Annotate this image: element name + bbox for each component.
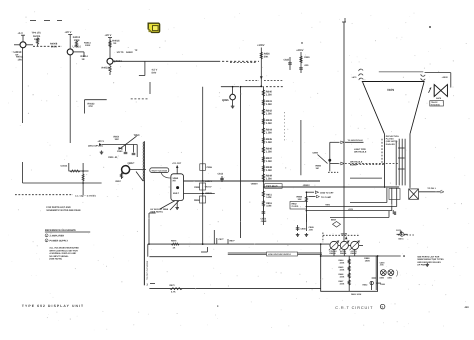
wire neck pin line y210.6 <box>306 210 308 212</box>
svg-text:(DECOUPLED): (DECOUPLED) <box>88 145 103 148</box>
CRT V879 envelope funnel <box>363 82 424 134</box>
svg-text:C806: C806 <box>207 166 213 169</box>
svg-text:-2850V: -2850V <box>205 180 213 183</box>
svg-text:+20 V: +20 V <box>65 31 72 34</box>
resistor R886 <box>348 273 350 278</box>
svg-text:+20 V: +20 V <box>98 140 105 143</box>
svg-text:MULT: MULT <box>173 192 180 195</box>
wire HV out lower <box>184 193 215 195</box>
circled sheet number <box>380 304 385 309</box>
svg-text:3.3M: 3.3M <box>266 204 271 207</box>
svg-text:C812: C812 <box>218 173 224 176</box>
box cluster R862 <box>290 202 306 210</box>
yellow note marker icon <box>148 23 159 32</box>
svg-text:1.5M: 1.5M <box>266 151 272 154</box>
wire y256 from left <box>149 256 212 258</box>
svg-text:R891 100K: R891 100K <box>351 293 362 296</box>
svg-text:.0068: .0068 <box>261 220 268 223</box>
wire x214 stub <box>213 230 215 244</box>
CRT base connector box with X <box>409 189 419 199</box>
label boxed on control line <box>267 252 298 256</box>
svg-text:R875: R875 <box>171 240 177 243</box>
svg-text:SCHEMATIC NOTES SEE PAGE: SCHEMATIC NOTES SEE PAGE <box>46 209 81 212</box>
svg-text:GEOM: GEOM <box>341 232 348 235</box>
wire horizontal y87 bus <box>221 86 263 88</box>
resistor R857 below Q857 <box>121 173 123 180</box>
svg-text:o.c. sag — 4 mV/div: o.c. sag — 4 mV/div <box>75 195 97 198</box>
svg-text:150K: 150K <box>340 268 345 271</box>
CRT inner screen dashed line <box>379 71 424 73</box>
wire anode out top arrow <box>176 166 178 174</box>
wire control bus y244 <box>148 243 330 245</box>
capacitor C852 <box>133 145 135 153</box>
wire ladder spine x263.5 <box>262 86 264 225</box>
transistor Q857 oscillator <box>122 166 130 174</box>
svg-text:2: 2 <box>46 239 47 242</box>
components cluster y225-238 <box>305 225 307 231</box>
wire cathode long line y187 <box>263 186 399 188</box>
tick marks top <box>30 20 36 22</box>
wire pot row to box stubs <box>333 250 335 257</box>
junction box top corners <box>320 255 322 257</box>
wire U4016 collector stub <box>73 51 84 53</box>
svg-text:1.5M: 1.5M <box>266 103 272 106</box>
resistor R849 <box>262 174 264 180</box>
svg-text:C825: C825 <box>284 59 290 62</box>
wire neck pin line y217.4 <box>330 216 389 218</box>
svg-text:1.5M: 1.5M <box>266 132 272 135</box>
wire inner vertical x376 <box>375 256 377 290</box>
svg-text:HIGH VOLTAGE: HIGH VOLTAGE <box>152 169 168 172</box>
svg-text:R877: R877 <box>230 240 236 243</box>
svg-text:Z AMPLIFIER: Z AMPLIFIER <box>50 234 65 237</box>
svg-text:1.5M: 1.5M <box>266 178 272 181</box>
wire stub x150 <box>149 82 151 94</box>
svg-text:Z AXIS: Z AXIS <box>292 205 299 208</box>
svg-text:1/2 TD: 1/2 TD <box>117 51 124 54</box>
svg-text:C868: C868 <box>301 228 307 231</box>
dashed line to light pipe <box>350 163 384 165</box>
svg-text:SEE PARTS LIST FOR: SEE PARTS LIST FOR <box>417 255 440 258</box>
svg-text:150K: 150K <box>340 282 345 285</box>
svg-text:+20 V: +20 V <box>105 34 112 37</box>
box geometry network outline <box>321 256 378 291</box>
svg-text:DEFLECTION: DEFLECTION <box>386 135 399 138</box>
svg-text:.001: .001 <box>304 64 309 67</box>
svg-text:1K: 1K <box>113 42 116 45</box>
svg-text:C4044: C4044 <box>61 165 68 168</box>
resistor R4044 <box>70 170 80 172</box>
node +20V at U4016 <box>69 35 71 49</box>
resistor R843 <box>262 118 264 124</box>
dashed graticule boundary vertical <box>381 139 383 165</box>
dashed stub under neck <box>398 234 414 236</box>
resistor R848 <box>262 165 264 171</box>
wire U4016 emitter down <box>69 55 71 143</box>
svg-text:1.5M: 1.5M <box>266 94 272 97</box>
svg-text:R864A: R864A <box>330 252 337 255</box>
wire grid vertical <box>329 142 331 171</box>
wire arrow C842 y192 <box>306 191 314 193</box>
capacitor C879 <box>399 231 401 235</box>
resistor R845 <box>262 137 264 143</box>
svg-text:TO GRATICULE: TO GRATICULE <box>348 139 364 142</box>
resistor R887 <box>348 280 350 285</box>
svg-text:1M: 1M <box>316 167 319 170</box>
wire dashed into divider <box>230 61 257 63</box>
wires fan below U860 <box>176 201 178 206</box>
svg-text:B867: B867 <box>331 218 337 221</box>
transistor U4016 <box>67 49 73 55</box>
svg-text:(SEE NOTE): (SEE NOTE) <box>49 258 62 261</box>
graticule lamp B890 <box>380 270 386 276</box>
svg-text:1: 1 <box>46 234 47 237</box>
svg-text:1K: 1K <box>82 58 85 61</box>
dashed DC BAL line <box>323 234 359 236</box>
wire x306 vertical <box>305 193 307 226</box>
svg-text:TO Z AMP: TO Z AMP <box>321 196 332 199</box>
wire U4010 base dashed <box>26 44 33 46</box>
svg-text:Q855: Q855 <box>222 99 229 102</box>
svg-text:R853: R853 <box>266 202 272 205</box>
wire Q855 collector <box>232 87 234 95</box>
svg-text:SEMICONDUCTOR TYPES: SEMICONDUCTOR TYPES <box>417 258 444 261</box>
svg-text:150K: 150K <box>340 261 345 264</box>
svg-text:C859: C859 <box>313 152 319 155</box>
wire double line to controls <box>228 252 322 254</box>
svg-text:150K: 150K <box>365 259 371 262</box>
wire corner to bottom bus <box>149 212 156 214</box>
potentiometer R864B INTENSITY <box>340 241 348 249</box>
svg-text:R4014: R4014 <box>84 42 91 45</box>
resistor R826 <box>260 52 262 59</box>
svg-text:+300V: +300V <box>257 44 265 47</box>
graticule lamp B891 <box>388 270 394 276</box>
svg-text:C850: C850 <box>117 150 123 153</box>
reference item 2 <box>45 239 48 242</box>
svg-text:300K: 300K <box>51 45 57 48</box>
capacitor C851 <box>125 145 127 152</box>
junction big dot grid node <box>328 159 331 162</box>
svg-text:-2850V: -2850V <box>303 184 311 187</box>
node +300V feed <box>260 48 262 87</box>
svg-text:+5 V: +5 V <box>18 32 24 35</box>
svg-text:C877: C877 <box>219 238 225 241</box>
diode CR851 <box>119 147 122 150</box>
wire funnel to trace rotation <box>425 72 451 74</box>
winding diagonal <box>120 136 136 149</box>
capacitor C812 stub x222 <box>221 176 223 182</box>
svg-text:(SEE NOTE): (SEE NOTE) <box>386 140 398 143</box>
arrow into trace rotation coil <box>429 88 432 93</box>
svg-text:449: 449 <box>465 306 470 309</box>
trace rotation coil B876 bowtie <box>434 85 447 97</box>
wire y288 long from bus <box>149 288 320 290</box>
label CRT BIAS boxed <box>265 184 283 189</box>
resistor chain R884-R887 inside box <box>348 256 350 291</box>
svg-text:A NORMAL DISPLAY AND: A NORMAL DISPLAY AND <box>49 252 76 255</box>
wire left bus bottom <box>69 170 89 172</box>
capacitor C806 box on x202 <box>200 164 206 171</box>
resistor R4046 <box>82 174 84 181</box>
transistor Q855 <box>230 94 236 100</box>
wire grid diagonal <box>318 155 328 164</box>
svg-text:Q857: Q857 <box>128 162 135 165</box>
svg-text:R4022: R4022 <box>126 51 133 54</box>
svg-text:ROTATION: ROTATION <box>431 103 441 106</box>
leader curve to U860 <box>161 173 171 179</box>
wire box top extension right <box>378 255 401 257</box>
wire U4010 emitter down <box>22 48 24 123</box>
resistor R882 inner <box>371 282 373 290</box>
capacitor C868 cluster <box>297 225 299 231</box>
wire x147.8 link <box>147 244 149 257</box>
svg-text:U4010: U4010 <box>14 51 22 54</box>
svg-text:R808: R808 <box>194 199 200 202</box>
svg-text:R857: R857 <box>116 180 122 183</box>
resistor R846 <box>262 147 264 153</box>
node +5V at U4010 collector <box>22 35 24 42</box>
svg-text:+150V: +150V <box>442 76 449 79</box>
svg-text:+TO CRT: +TO CRT <box>172 162 182 165</box>
resistor R851 <box>262 191 264 197</box>
resistor R4023 below Q4024 <box>109 64 111 66</box>
svg-text:U860: U860 <box>173 177 179 180</box>
svg-text:1.5M: 1.5M <box>266 113 272 116</box>
wire Q857 collector to T850 <box>136 145 138 158</box>
svg-text:C851 .01: C851 .01 <box>108 156 118 159</box>
svg-text:WITH CONTROLS SET FOR: WITH CONTROLS SET FOR <box>49 249 78 252</box>
wire bus x240 grid line <box>240 87 242 238</box>
wire HV out right pair <box>184 180 321 182</box>
svg-text:R873: R873 <box>170 284 176 287</box>
resistor R847 <box>262 156 264 162</box>
svg-text:OF PARTS: OF PARTS <box>417 264 428 267</box>
svg-text:1.2M: 1.2M <box>266 196 271 199</box>
resistor R868 <box>305 196 307 202</box>
ground right of box <box>426 263 428 265</box>
resistor R885 <box>348 266 350 271</box>
svg-text:R864B: R864B <box>340 252 347 255</box>
neon lamp B867 diamond <box>333 222 341 228</box>
svg-text:FOR PARTS LIST AND: FOR PARTS LIST AND <box>46 206 71 209</box>
dashed vertical x322.9 <box>322 233 324 243</box>
CRT left deflection plate leads <box>359 69 363 80</box>
junction ladder CRT cathode tap <box>262 180 264 182</box>
label TRACE ROTATION boxed <box>430 101 444 106</box>
junction y183 <box>82 182 84 184</box>
wire arrow to graticule y142 <box>330 141 340 143</box>
bracket right of lamps <box>397 270 398 277</box>
dot top right <box>429 26 431 28</box>
CRT neck walls <box>383 134 385 188</box>
svg-text:R4023: R4023 <box>102 67 110 70</box>
resistor R875 in bus <box>171 243 179 245</box>
transistor Q4024 <box>107 58 113 64</box>
svg-text:B890: B890 <box>380 276 385 279</box>
svg-text:100K: 100K <box>85 44 91 47</box>
svg-text:-2850V: -2850V <box>251 183 259 186</box>
svg-text:POWER SUPPLY: POWER SUPPLY <box>50 239 69 242</box>
junction divider top <box>260 85 262 87</box>
wire dashed shield x284 <box>284 112 286 142</box>
potentiometer R864C ASTIG <box>351 241 359 249</box>
svg-text:C820: C820 <box>304 56 310 59</box>
svg-text:R854: R854 <box>114 136 120 139</box>
svg-text:TYPE 602 DISPLAY UNIT: TYPE 602 DISPLAY UNIT <box>22 304 84 308</box>
wire Q855 emitter + ground <box>232 100 234 105</box>
svg-text:4.7K: 4.7K <box>171 291 176 294</box>
svg-text:AND EARLIER VALUES: AND EARLIER VALUES <box>417 261 441 264</box>
svg-text:ILLUM: ILLUM <box>350 163 357 166</box>
wire from base box to right with label <box>419 191 441 193</box>
svg-text:C869: C869 <box>309 226 315 229</box>
svg-text:V879: V879 <box>387 88 394 92</box>
svg-text:LIGHT PIPE: LIGHT PIPE <box>354 148 366 151</box>
wire CRT bottom y178 faint <box>350 177 382 179</box>
capacitor C808 boxes on x202 <box>200 183 206 190</box>
junction at x202 <box>202 243 204 245</box>
reference item 1 <box>45 234 48 237</box>
CRT right deflection plate leads <box>421 74 425 80</box>
potentiometer R864A FOCUS <box>330 241 338 249</box>
ground below feed <box>101 151 103 153</box>
wire pots series links <box>338 244 340 246</box>
wire neck pin line y206.5 <box>306 206 308 208</box>
svg-text:TO PIN 1: TO PIN 1 <box>427 187 436 190</box>
CRT gun electrode ticks <box>398 147 405 149</box>
wire L hook x207 <box>201 251 207 253</box>
wire hook to lamps <box>372 277 377 279</box>
wire Q4024 collector to right bus <box>113 60 218 62</box>
svg-text:1.5M: 1.5M <box>266 122 272 125</box>
svg-text:HV: HV <box>173 180 177 183</box>
svg-text:GRATICULE: GRATICULE <box>350 161 363 164</box>
svg-text:1.5M: 1.5M <box>266 160 272 163</box>
svg-text:R864C: R864C <box>351 252 358 255</box>
capacitor C825 cluster <box>289 57 291 70</box>
svg-text:+15V: +15V <box>348 208 354 211</box>
ground cluster below x306 <box>305 214 307 222</box>
wire dashes y172 <box>328 171 338 173</box>
svg-text:REFERENCE DIAGRAMS: REFERENCE DIAGRAMS <box>45 229 76 232</box>
CRT gun base outline <box>389 189 400 200</box>
capacitor C853 <box>262 207 264 217</box>
resistor R844 <box>262 128 264 134</box>
junction at x149 <box>148 243 150 245</box>
svg-text:1K: 1K <box>173 247 176 250</box>
CRT faceplate top line <box>362 81 425 83</box>
svg-text:T850: T850 <box>134 134 140 137</box>
wire arrow dashed y163 <box>330 163 340 165</box>
wire x300 vertical <box>300 120 302 175</box>
svg-text:/DIV: /DIV <box>152 71 157 74</box>
wire corner x84 feedback box <box>85 99 107 101</box>
svg-text:EARLIER: EARLIER <box>386 143 395 146</box>
wire Q857 to bus diagonal <box>136 172 143 182</box>
wire dashed y195 <box>15 194 73 196</box>
CRT gun grid lines <box>395 141 397 186</box>
transformer T850 winding on bus <box>143 141 145 180</box>
svg-text:✱: ✱ <box>403 255 405 258</box>
resistor R853 <box>262 201 264 207</box>
wire x83 down <box>82 163 84 195</box>
wire main HV bus x144 <box>143 180 145 285</box>
wire U4010 base stub <box>14 44 20 46</box>
svg-text:C.R.T CIRCUIT: C.R.T CIRCUIT <box>335 306 373 310</box>
heater capacitor <box>392 210 394 214</box>
CRT neck pin wires wrap left <box>386 188 388 203</box>
svg-text:10K: 10K <box>298 198 302 201</box>
node +20V at Q4024 <box>109 38 111 59</box>
wire dashed y80 <box>246 79 260 81</box>
svg-text:GRATICULE: GRATICULE <box>354 151 367 154</box>
wire corner to feedback row <box>23 182 102 184</box>
svg-text:27K: 27K <box>89 105 94 108</box>
wire +20V feed arrow into oscillator <box>99 143 102 146</box>
svg-text:C808: C808 <box>194 186 200 189</box>
wire dashed continuation to divider <box>218 60 259 62</box>
svg-text:1.5M: 1.5M <box>266 169 272 172</box>
resistor R841 <box>262 99 264 105</box>
svg-text:+200V: +200V <box>296 49 304 52</box>
svg-text:ALL VOLTAGES MEASURED: ALL VOLTAGES MEASURED <box>49 247 79 250</box>
svg-text:1.5M: 1.5M <box>266 141 272 144</box>
graticule lamp B874 symbol <box>400 232 404 236</box>
resistor R840 <box>262 90 264 96</box>
svg-text:C842 TO CRT: C842 TO CRT <box>320 192 334 195</box>
wire bus x202 HV feedback <box>202 87 204 244</box>
svg-text:150K: 150K <box>340 275 345 278</box>
svg-text:10K: 10K <box>18 58 23 61</box>
svg-text:10K: 10K <box>115 138 120 141</box>
label HIGH VOLTAGE boxed <box>150 168 169 173</box>
HV multiplier U860 box <box>171 174 184 201</box>
capacitor C4044 <box>68 163 70 171</box>
transistor U4010 <box>20 42 26 48</box>
wire x344 long vertical <box>343 22 345 241</box>
resistor R884 <box>348 259 350 264</box>
svg-text:39K: 39K <box>264 55 269 58</box>
svg-text:R4032: R4032 <box>88 103 96 106</box>
svg-text:C853: C853 <box>261 218 267 221</box>
svg-text:B891: B891 <box>388 276 393 279</box>
svg-text:R851: R851 <box>266 194 272 197</box>
capacitor C820 cluster <box>300 52 302 73</box>
wire TO Z AMP arrow y196.6 <box>308 196 315 198</box>
svg-text:TP4 101: TP4 101 <box>32 32 42 35</box>
wire control bus into box corner <box>320 244 322 256</box>
wire hook at x145 <box>144 61 146 75</box>
svg-text:PLATES: PLATES <box>386 138 394 141</box>
resistor R873 in y288 line <box>170 288 183 290</box>
svg-text:R862: R862 <box>292 203 298 206</box>
resistor R842 <box>262 109 264 115</box>
capacitor C877 cluster above bus <box>216 238 218 244</box>
svg-text:TO CRT CATHODE: TO CRT CATHODE <box>146 260 149 280</box>
svg-text:+95V: +95V <box>325 204 331 207</box>
svg-text:LOW VOLTAGE SUPPLY: LOW VOLTAGE SUPPLY <box>268 253 292 256</box>
diode arrow on divider feed <box>260 76 263 79</box>
svg-text:-25 KV: -25 KV <box>205 186 212 189</box>
